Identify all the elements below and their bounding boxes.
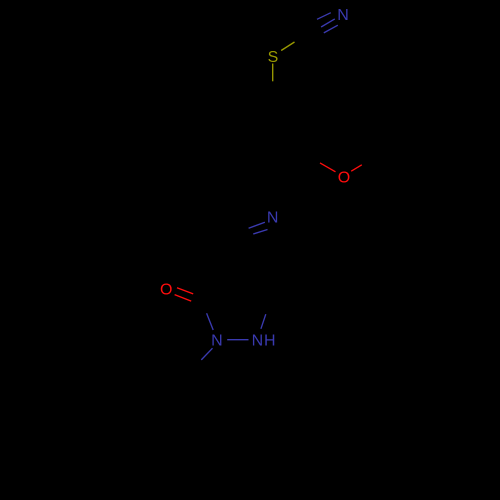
bond C#N triple, lower line (N half) <box>324 25 338 33</box>
bond C#N triple, main line (N half) <box>321 19 335 27</box>
svg-text:O: O <box>160 281 172 298</box>
svg-text:O: O <box>338 169 350 186</box>
bond N2-phenyl (N half) <box>201 348 212 360</box>
bond S-ring (S half) <box>272 64 274 82</box>
svg-text:N: N <box>337 7 349 24</box>
svg-text:H: H <box>264 333 276 350</box>
bond S-C (S half) <box>281 42 294 51</box>
bond C=N imine, lower line (N half) <box>253 230 267 235</box>
bond C#N triple, upper line (N half) <box>317 13 331 20</box>
bond O-ring (O half) <box>320 163 336 172</box>
bond N2-N1 (full blue) <box>227 339 248 341</box>
svg-text:S: S <box>268 49 279 66</box>
bond O-CH3 (O half) <box>351 165 362 171</box>
bond C=O ketone, lower line (O half) <box>175 295 192 302</box>
svg-text:N: N <box>211 333 223 350</box>
bond N1-C5 (N half) <box>261 314 266 329</box>
bond N2-C3 (N half) <box>207 313 214 330</box>
svg-text:N: N <box>252 333 264 350</box>
bond C=N imine, upper line (N half) <box>249 222 265 228</box>
svg-text:N: N <box>267 209 279 226</box>
bond C=O ketone, upper line (O half) <box>177 288 193 294</box>
